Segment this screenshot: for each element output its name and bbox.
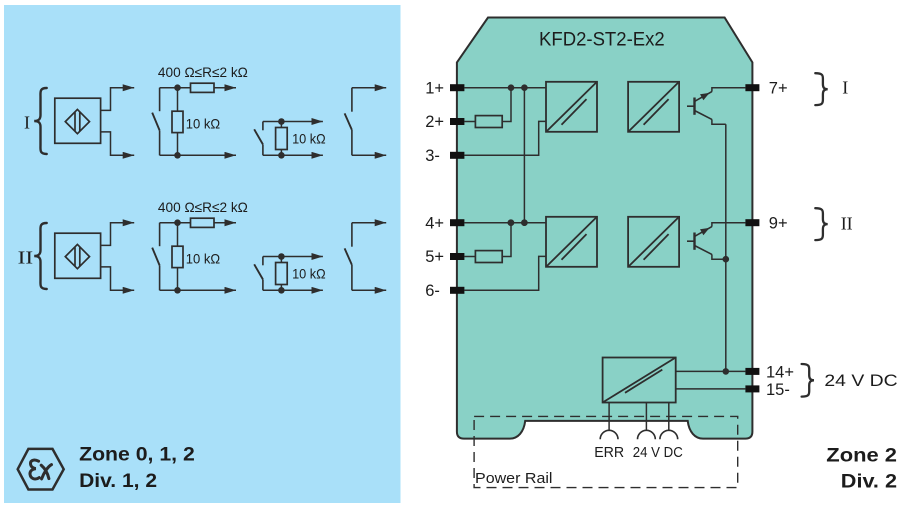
power rail dashed boundary xyxy=(474,416,738,487)
NAMUR proximity sensor BI xyxy=(55,98,101,143)
svg-text:I: I xyxy=(842,78,848,98)
svg-text:10 kΩ: 10 kΩ xyxy=(186,251,220,267)
wire network II top left segment xyxy=(160,222,191,224)
resistor R series (channel I) xyxy=(191,83,215,92)
wire contact I top with arrow xyxy=(352,87,386,89)
terminal 4+ xyxy=(450,219,464,226)
isolator stage 2 (channel I) xyxy=(628,82,679,132)
transistor output QI xyxy=(687,92,712,120)
terminal 1+ xyxy=(450,84,464,91)
terminal 7+ xyxy=(745,84,759,91)
contact arc DC xyxy=(660,430,678,439)
node junction B (channel II) xyxy=(521,219,528,226)
svg-text:15-: 15- xyxy=(766,381,790,399)
wire terminal 5+ to resistor xyxy=(464,256,475,258)
wire contact II bottom with arrow xyxy=(352,289,386,291)
wire power supply to DC contact xyxy=(668,403,670,431)
hazardous area panel (blue) xyxy=(4,5,401,503)
NAMUR proximity sensor BII xyxy=(55,233,101,278)
brace channel II (field side) xyxy=(34,223,47,289)
wire shunt I bottom with arrow xyxy=(263,154,323,156)
wire terminal 1+ to isolator xyxy=(464,87,546,89)
svg-text:7+: 7+ xyxy=(769,79,788,97)
svg-text:Div. 2: Div. 2 xyxy=(841,470,897,492)
switch contact SIIa (network branch) xyxy=(159,223,161,247)
svg-text:9+: 9+ xyxy=(769,214,788,232)
node junction A (channel I) xyxy=(508,84,515,91)
switch contact SIIc (dry contact) xyxy=(351,223,353,247)
wire network II bottom with arrow xyxy=(160,289,236,291)
node shunt I top junction xyxy=(278,118,285,125)
wire terminal 6- to isolator minus xyxy=(464,256,546,290)
switch contact SIa (network branch) xyxy=(159,88,161,112)
svg-text:24 V DC: 24 V DC xyxy=(633,444,683,461)
resistor input (channel II) xyxy=(475,251,502,263)
svg-text:10 kΩ: 10 kΩ xyxy=(292,130,326,146)
svg-text:KFD2-ST2-Ex2: KFD2-ST2-Ex2 xyxy=(539,30,665,51)
svg-text:5+: 5+ xyxy=(425,248,444,266)
node junction B (channel II) tie xyxy=(521,219,528,226)
switch contact SIb (shunt branch) xyxy=(262,122,264,131)
brace channel I (field side) xyxy=(34,88,47,154)
node emitter QII junction xyxy=(723,256,730,263)
svg-text:10 kΩ: 10 kΩ xyxy=(186,116,220,132)
node network I bottom junction xyxy=(174,152,181,159)
isolator stage 1 (channel I) xyxy=(546,82,597,132)
svg-text:Zone 2: Zone 2 xyxy=(826,445,897,467)
node network II top junction xyxy=(174,219,181,226)
terminal 3- xyxy=(450,152,464,159)
node shunt II bottom junction xyxy=(278,287,285,294)
terminal 6- xyxy=(450,287,464,294)
terminal 2+ xyxy=(450,118,464,125)
wire contact I bottom with arrow xyxy=(352,154,386,156)
node junction A (channel II) xyxy=(508,219,515,226)
node junction B (channel I) xyxy=(521,84,528,91)
isolator stage 2 (channel II) xyxy=(628,217,679,267)
wire sensor II plus output with arrow xyxy=(101,223,135,246)
svg-text:I: I xyxy=(24,113,30,133)
svg-text:14+: 14+ xyxy=(766,364,794,382)
wire terminal 4+ to isolator xyxy=(464,222,546,224)
terminal 15- xyxy=(745,385,759,392)
wire power supply to terminal 15- xyxy=(676,388,746,390)
wire network I top left segment xyxy=(160,87,191,89)
wire power supply to terminal 14+ xyxy=(676,370,746,372)
resistor R series (channel II) xyxy=(191,218,215,227)
svg-text:2+: 2+ xyxy=(425,113,444,131)
node network II bottom junction xyxy=(174,287,181,294)
resistor 10 kOhm switched (channel II) xyxy=(280,257,282,263)
wire shunt II bottom with arrow xyxy=(263,289,323,291)
resistor 10 kOhm switched (channel I) xyxy=(280,122,282,128)
wire network I top arrow xyxy=(214,87,236,89)
wire resistor to node (channel II) xyxy=(502,223,511,257)
node shunt I bottom junction xyxy=(278,152,285,159)
svg-text:Div. 1, 2: Div. 1, 2 xyxy=(79,470,157,492)
brace output I xyxy=(815,73,827,105)
terminal 9+ xyxy=(745,219,759,226)
svg-text:ERR: ERR xyxy=(594,444,624,461)
terminal 5+ xyxy=(450,253,464,260)
svg-text:3-: 3- xyxy=(425,147,440,165)
wire terminal 2+ to resistor xyxy=(464,121,475,123)
wire sensor I minus output with arrow xyxy=(101,132,135,155)
wire resistor to node (channel I) xyxy=(502,88,511,122)
wire power supply to ERR contact xyxy=(608,403,610,431)
svg-text:4+: 4+ xyxy=(425,214,444,232)
contact arc 24V xyxy=(638,430,656,439)
transistor output QII xyxy=(687,227,712,255)
switch contact SIc (dry contact) xyxy=(351,88,353,112)
Ex hexagon logo xyxy=(18,449,64,490)
wire network II top arrow xyxy=(214,222,236,224)
wire sensor II minus output with arrow xyxy=(101,267,135,290)
wire node B channel I down to channel II input xyxy=(523,88,525,223)
wire power supply to 24V contact xyxy=(645,403,647,431)
svg-text:Zone 0, 1, 2: Zone 0, 1, 2 xyxy=(79,443,195,465)
node shunt II top junction xyxy=(278,253,285,260)
svg-text:1+: 1+ xyxy=(425,79,444,97)
svg-text:400 Ω≤R≤2 kΩ: 400 Ω≤R≤2 kΩ xyxy=(158,199,248,215)
contact arc ERR xyxy=(600,430,618,439)
node supply rail to 14+ junction xyxy=(723,368,730,375)
svg-text:24 V DC: 24 V DC xyxy=(824,371,897,390)
svg-text:II: II xyxy=(18,248,33,268)
resistor 10 kOhm shunt (channel II) xyxy=(177,223,179,247)
wire sensor I plus output with arrow xyxy=(101,88,135,111)
resistor input (channel I) xyxy=(475,116,502,128)
wire collector to terminal 7+ xyxy=(712,88,746,92)
KFD2-ST2-Ex2 device body xyxy=(457,18,753,439)
svg-text:6-: 6- xyxy=(425,282,440,300)
isolator stage 1 (channel II) xyxy=(546,217,597,267)
wire shunt I top with arrow xyxy=(263,121,323,123)
wire emitter QII to supply rail xyxy=(712,254,726,259)
power supply unit xyxy=(603,358,676,403)
wire contact II top with arrow xyxy=(352,222,386,224)
svg-text:II: II xyxy=(841,213,853,233)
terminal 14+ xyxy=(745,368,759,375)
brace 24 V DC xyxy=(802,364,814,397)
wire collector to terminal 9+ xyxy=(712,223,746,227)
wire emitter QI to supply rail xyxy=(712,119,726,124)
brace output II xyxy=(815,208,827,240)
wire network I bottom with arrow xyxy=(160,154,236,156)
switch contact SIIb (shunt branch) xyxy=(262,257,264,266)
wire supply rail vertical xyxy=(725,124,727,371)
node network I top junction xyxy=(174,84,181,91)
resistor 10 kOhm shunt (channel I) xyxy=(177,88,179,112)
node junction A (channel II) tie xyxy=(508,219,515,226)
wire terminal 3- to isolator minus xyxy=(464,121,546,155)
svg-text:10 kΩ: 10 kΩ xyxy=(292,265,326,281)
svg-text:Power Rail: Power Rail xyxy=(475,470,553,487)
svg-text:400 Ω≤R≤2 kΩ: 400 Ω≤R≤2 kΩ xyxy=(158,64,248,80)
wire shunt II top with arrow xyxy=(263,256,323,258)
